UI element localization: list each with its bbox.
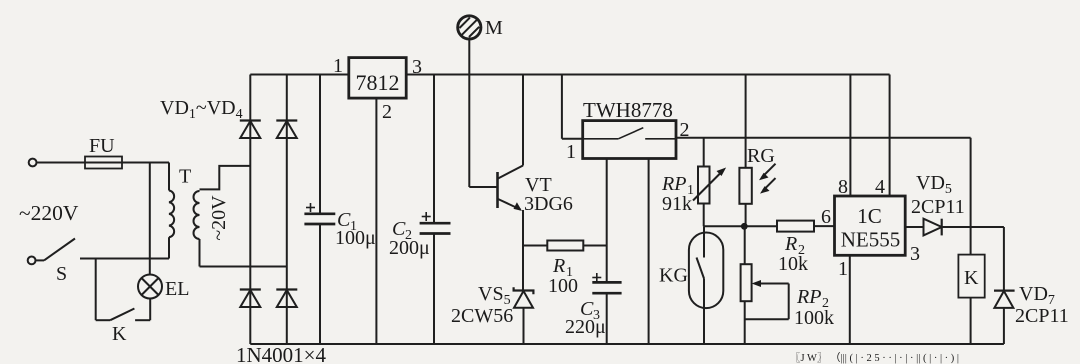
wire RG top lead from rail (745, 75, 747, 168)
svg-text:6: 6 (821, 206, 831, 228)
wire secondary top to bridge (200, 166, 251, 190)
diode VD3 (bridge bottom-left) (240, 290, 261, 308)
wire R2 to pin6 (814, 225, 834, 227)
svg-text:2CP11: 2CP11 (911, 196, 965, 218)
svg-text:T: T (179, 166, 191, 188)
wire bottom ground rail (250, 343, 1004, 345)
lamp EL (138, 275, 162, 299)
svg-text:R: R (784, 233, 797, 255)
svg-text:8: 8 (838, 176, 848, 198)
IC U1 NE555 (835, 196, 906, 255)
svg-text:1: 1 (838, 258, 848, 280)
diode VD5 (924, 219, 942, 236)
regulator U 7812 (349, 58, 406, 99)
svg-text:220μ: 220μ (565, 316, 606, 338)
svg-text:1C: 1C (857, 204, 882, 228)
switch K (110, 309, 150, 321)
svg-text:VD1~VD4: VD1~VD4 (160, 97, 243, 122)
plus C3 (592, 273, 601, 282)
motor M (458, 16, 481, 39)
plus C2 (422, 212, 431, 221)
wire rail to TWH pin1 (562, 75, 583, 139)
transistor VT (498, 166, 524, 211)
wire RP1/KG junction to R2 (704, 225, 777, 227)
svg-text:1: 1 (566, 141, 576, 163)
svg-text:K: K (964, 267, 979, 289)
wire S to primary bottom (80, 258, 169, 260)
wire TWH pin left-bottom to junction (606, 159, 608, 283)
wire emitter to R1 (523, 245, 547, 247)
wire pin4 rail end (889, 75, 891, 197)
svg-text:91k: 91k (662, 193, 692, 215)
svg-text:100μ: 100μ (335, 227, 376, 249)
svg-text:4: 4 (875, 176, 885, 198)
fuse FU (85, 157, 122, 169)
diode VD2 (bridge top-right) (276, 121, 297, 139)
svg-text:3: 3 (412, 56, 422, 78)
capacitor C1 (304, 75, 335, 345)
svg-text:FU: FU (89, 135, 115, 157)
diode VD4 (bridge bottom-right) (276, 290, 297, 308)
svg-text:200μ: 200μ (389, 237, 430, 259)
wire K branch left (96, 259, 111, 321)
wire bridge right branch (286, 75, 288, 345)
svg-text:K: K (112, 323, 127, 345)
svg-text:100: 100 (548, 275, 578, 297)
svg-text:10k: 10k (778, 253, 808, 275)
wire TWH pin2 output (676, 138, 971, 255)
wire VT emitter down (522, 210, 524, 291)
svg-text:R: R (552, 255, 565, 277)
svg-text:1: 1 (333, 55, 343, 77)
wire RP1 top lead (703, 138, 705, 167)
junction dot node A (741, 223, 748, 230)
transformer T secondary (194, 191, 200, 267)
wire bridge left branch (249, 75, 251, 345)
reed switch KG (689, 226, 723, 344)
svg-text:2: 2 (382, 101, 392, 123)
svg-text:2CW56: 2CW56 (451, 305, 513, 327)
IC TWH8778 (583, 121, 676, 159)
relay coil K (958, 255, 984, 298)
svg-text:TWH8778: TWH8778 (583, 98, 673, 122)
svg-text:VD5: VD5 (916, 172, 952, 197)
potentiometer RP2 (741, 264, 789, 344)
wire pin8 to rail (849, 75, 851, 197)
wire top +12V rail right of 7812 (406, 74, 889, 76)
svg-text:RP: RP (661, 173, 686, 195)
wire 7812 pin2 down (375, 98, 377, 344)
diode VD7 (994, 291, 1015, 344)
diode VD1 (bridge top-left) (240, 121, 261, 139)
terminal top-left (29, 159, 37, 167)
svg-text:3: 3 (910, 243, 920, 265)
svg-text:EL: EL (165, 278, 189, 300)
svg-text:KG: KG (659, 265, 688, 287)
resistor R1 (547, 241, 583, 251)
wire K to EL (149, 299, 151, 321)
wire top +12V rail left of 7812 (250, 74, 348, 76)
resistor R2 (777, 221, 814, 232)
wire R1 to C3 junction (583, 245, 606, 247)
wire fuse to transformer primary top (122, 162, 169, 164)
svg-text:RG: RG (747, 145, 775, 167)
wire dot to RP2 (744, 226, 746, 264)
svg-text:M: M (485, 17, 503, 39)
plus C1 (306, 203, 315, 212)
terminal bottom-left (28, 257, 36, 265)
svg-text:1N4001×4: 1N4001×4 (236, 343, 327, 364)
wire K bottom to ground (970, 298, 972, 344)
photoresistor RG (739, 168, 751, 227)
zener VS5 (514, 287, 534, 344)
wire EL branch drop (149, 163, 151, 275)
svg-text:~220V: ~220V (19, 201, 79, 225)
svg-text:NE555: NE555 (841, 228, 901, 252)
svg-text:~20V: ~20V (208, 195, 230, 241)
capacitor C2 (420, 75, 451, 345)
wire VD5 to VD7 corner (942, 227, 1004, 291)
svg-text:2CP11: 2CP11 (1015, 305, 1069, 327)
capacitor C3 (592, 282, 621, 344)
switch S (36, 239, 75, 261)
svg-text:7812: 7812 (356, 70, 400, 95)
wire pin3 to VD5 (905, 226, 923, 228)
svg-text:3DG6: 3DG6 (524, 193, 573, 215)
transformer T primary (169, 163, 174, 259)
wire secondary bottom to bridge (200, 266, 287, 268)
wire VT collector to rail (522, 75, 524, 166)
wire TWH right-bottom pin to ground (648, 159, 650, 345)
svg-text:〖J W〗 （||| ( | · 2 5 · · | · |: 〖J W〗 （||| ( | · 2 5 · · | · | · || ( | … (790, 352, 959, 364)
svg-text:RP: RP (796, 286, 821, 308)
wire pin1 to ground (849, 255, 851, 344)
wire terminal to fuse (37, 162, 85, 164)
light arrows RG (759, 164, 776, 194)
svg-text:S: S (56, 263, 67, 285)
svg-text:100k: 100k (794, 307, 834, 329)
potentiometer RP1 (693, 167, 726, 227)
wire M to VT base (469, 39, 496, 187)
